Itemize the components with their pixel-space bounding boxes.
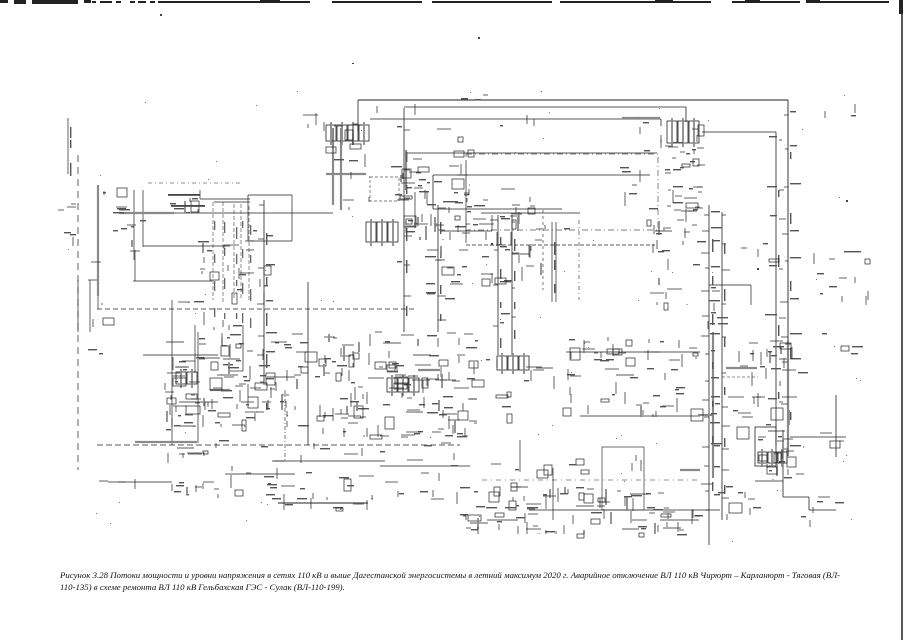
wire riser x200 (199, 190, 201, 199)
wire vertical x243 (242, 325, 244, 371)
substation cluster S35 (491, 459, 589, 491)
wire dashdot y480 (482, 479, 700, 481)
bus B2 (119, 212, 174, 214)
wire line y510 chain (529, 509, 720, 511)
wire tail riser x284 (283, 494, 285, 510)
wire line y202 (214, 201, 250, 203)
wire step wire b (782, 481, 784, 497)
wire spur y377 (267, 376, 295, 378)
bus B5 (712, 332, 714, 478)
wire vertical x134 (133, 190, 135, 260)
wire vertical x172 (171, 300, 173, 445)
wire dashed line y445 (97, 444, 460, 446)
wire line y213 (174, 212, 333, 214)
wire box Artem right (291, 195, 293, 241)
substation cluster S21 (165, 333, 317, 431)
substation cluster S25 (728, 341, 808, 439)
tick labels trunk x788 (780, 111, 802, 449)
bus B7 (332, 128, 334, 205)
substation cluster S51 (437, 129, 474, 157)
wire left dashed vertical (77, 155, 79, 470)
substation cluster S41 (461, 95, 488, 100)
wire vertical x195 (194, 325, 196, 373)
substation cluster S18 (88, 262, 102, 305)
tick labels vertical x498 (490, 216, 511, 326)
wire step wire a (755, 480, 783, 482)
wire vertical x552 (551, 222, 553, 302)
wire dashed line y245 (466, 244, 655, 246)
substation cluster S12 (758, 431, 804, 480)
tick labels vertical x404 (391, 126, 412, 296)
substation cluster S38 (545, 220, 580, 229)
wire vertical x198 (197, 332, 199, 443)
bus B9 (418, 369, 440, 371)
wire 110kV line Chiryurt top (358, 99, 788, 101)
wire step wire d (808, 497, 810, 510)
substation cluster S10 (708, 291, 728, 329)
wire inner rect top (433, 174, 650, 176)
substation cluster S8 (665, 147, 702, 220)
wire dashed line y308 (97, 308, 415, 310)
substation cluster S28 (166, 429, 229, 498)
wire riser x492 (491, 215, 493, 231)
wire line y461 mid (272, 460, 385, 462)
wire line y482 (108, 481, 172, 483)
wire dashed vertical x579 (578, 220, 580, 300)
substation cluster S47 (817, 497, 844, 503)
wire drop x751 (750, 285, 752, 305)
wire trunk x709 (708, 205, 710, 545)
bus B11 (680, 469, 700, 471)
wire dashed y377 (722, 376, 758, 378)
wire vertical x308 (307, 282, 309, 445)
substation cluster S45 (820, 433, 844, 448)
box Signal (186, 406, 200, 414)
bus B12 (622, 117, 660, 119)
wire drop at x358 (357, 100, 359, 131)
zone boundary dashed rectangle 330kV ring (466, 154, 658, 230)
substation cluster S50 (500, 115, 534, 126)
scan artifact right page fold line (901, 0, 903, 640)
wire step wire c (783, 496, 809, 498)
wire vertical feeder x404 (403, 108, 405, 332)
substation cluster S43 (64, 232, 76, 246)
bus B8 (340, 128, 342, 210)
wire Belidzhi spur y520 (487, 519, 518, 521)
wire line y281 (133, 280, 212, 282)
switchyard box left loop (602, 447, 644, 510)
box Sulak GES (452, 179, 464, 189)
wire gray vertical thin tail x98 (97, 296, 99, 309)
substation cluster S7 (620, 167, 640, 206)
wire line y474 left (225, 473, 295, 475)
substation cluster S34 (457, 487, 703, 538)
wire vertical x466 solid (465, 160, 467, 243)
tick labels chain x438 (425, 204, 446, 320)
substation cluster S37 (801, 507, 813, 527)
feeder comb verticals (213, 202, 251, 328)
substation cluster S27 (632, 455, 641, 471)
wire line y466 center (380, 465, 470, 467)
substation cluster S39 (377, 104, 428, 115)
substation cluster S42 (58, 204, 76, 210)
wire corner drop x686 (685, 107, 687, 122)
rotated line labels along trunks (70, 127, 791, 494)
wire line y402 (179, 401, 218, 403)
tick labels chain x697 (690, 148, 705, 208)
tick labels trunk x709 (701, 211, 722, 510)
wire line y352 right (566, 351, 700, 353)
wire line y355 left (143, 354, 218, 356)
bus B6 (787, 340, 789, 455)
substation cluster S30 (231, 466, 277, 496)
substation cluster S5 (426, 246, 468, 299)
wire center vertical x498 (497, 215, 499, 355)
wire vertical x135 to y281 (134, 250, 136, 281)
scan noise specks (160, 14, 848, 270)
bus B15 (405, 150, 407, 190)
substation cluster S33 (407, 443, 458, 473)
wire vertical x143 (142, 190, 144, 247)
substation cluster S44 (842, 251, 870, 305)
wire inner rect bottom (433, 208, 562, 210)
wire line y437 right (790, 436, 846, 438)
substation cluster S29 (99, 479, 135, 489)
substation cluster S17 (113, 220, 146, 251)
wire line y213 center (481, 212, 580, 214)
wire tail chain y503 (278, 502, 368, 504)
wire 110kV line mid (370, 118, 661, 120)
wire vertical x90 left (89, 280, 91, 332)
tick labels chain x671 (665, 142, 683, 228)
transformer bank right-bottom (758, 449, 787, 467)
substation cluster S49 (402, 169, 422, 232)
substation cluster S22 (315, 332, 484, 439)
wire right trunk vertical (787, 100, 789, 456)
scan artifact top right corner tick (899, 0, 903, 14)
substation cluster S36 (701, 484, 761, 520)
substation cluster S4 (473, 189, 542, 286)
wire vertical x520 (519, 440, 521, 472)
wire inner rect left (432, 175, 434, 209)
wire right end vertical x836 (835, 395, 837, 457)
transformer bank Chiryurt (326, 122, 369, 145)
substation cluster S6 (640, 122, 704, 154)
substation cluster S16 (103, 188, 130, 213)
substation cluster S32 (285, 498, 367, 511)
wire line y231 (440, 230, 492, 232)
wire vertical x438 (437, 205, 439, 332)
substation cluster S20 (88, 318, 114, 354)
transformer bank x366 (366, 219, 398, 246)
wire corner drop x661 (660, 119, 662, 126)
substation cluster S24 (563, 337, 703, 421)
wire vertical x556 (555, 222, 557, 302)
substation cluster S11 (741, 243, 779, 262)
substation cluster S15 (198, 230, 257, 274)
wire center vertical x512 (511, 215, 513, 355)
wire box Artem bottom (248, 240, 292, 242)
wire long line y152 (407, 152, 657, 154)
wire dashed vertical x285 (284, 390, 286, 460)
scan speckle noise (68, 91, 861, 542)
substation cluster S48 (343, 154, 370, 210)
transformer bank S15 (387, 375, 419, 396)
wire dashed y183 (148, 182, 240, 184)
substation cluster S19 (178, 266, 271, 330)
wire vertical x415 (414, 192, 416, 228)
tick labels trunk x779 (765, 136, 787, 402)
switchyard box Aeroport (755, 427, 776, 466)
bus B10 (210, 389, 230, 391)
wire line y199 (200, 198, 250, 200)
tick labels vertical x512 (501, 218, 519, 317)
substation cluster S40 (825, 104, 856, 118)
wire left label vertical (67, 118, 69, 174)
bus B1 (326, 173, 366, 175)
wire box Artem top (248, 194, 292, 196)
transformer bank Makhachkala-330 (497, 353, 529, 374)
wire dashed vertical x543 (542, 210, 544, 290)
scan artifact top edge strip (0, 0, 889, 4)
wire line y416 right (580, 415, 700, 417)
wire 330kV line upper (404, 106, 686, 108)
bus B4 (726, 367, 757, 369)
substation cluster S9 (647, 207, 706, 310)
substation cluster S3 (397, 159, 472, 240)
wire step wire e (809, 509, 836, 511)
dashed box 35kV (370, 177, 399, 201)
substation cluster S26 (758, 436, 793, 476)
label VL110 Gergebil (168, 194, 205, 207)
wire line y520 a (660, 519, 699, 521)
transformer bank SW (176, 369, 197, 388)
wire line y132 right (702, 131, 776, 133)
bus B3 (698, 414, 712, 416)
substation cluster S2 (303, 113, 318, 128)
substation cluster S46 (822, 333, 863, 354)
tick labels trunk x722 (709, 211, 730, 498)
substation cluster S31 (261, 443, 444, 500)
substation cluster S1 (324, 122, 362, 161)
wire box Artem left (247, 195, 249, 241)
wire trunk x776 (775, 132, 777, 445)
substation cluster S13 (814, 253, 868, 300)
transformer bank NE (667, 118, 699, 147)
wire line y246 (143, 245, 230, 247)
wire corner y285 (709, 284, 751, 286)
box Most (255, 383, 267, 390)
substation cluster S14 (170, 198, 199, 213)
bus B13 (135, 441, 197, 443)
tick labels vertical x264 (256, 205, 277, 412)
wire line y371 (229, 370, 243, 372)
wire left vertical x264 (263, 200, 265, 385)
wire trunk x722 (721, 212, 723, 520)
wire vertical x553 (552, 468, 554, 520)
wire vertical x783 (782, 430, 784, 481)
wire vertical x78 left (77, 280, 79, 332)
substation cluster S23 (486, 359, 554, 423)
bus B14 (97, 185, 99, 296)
